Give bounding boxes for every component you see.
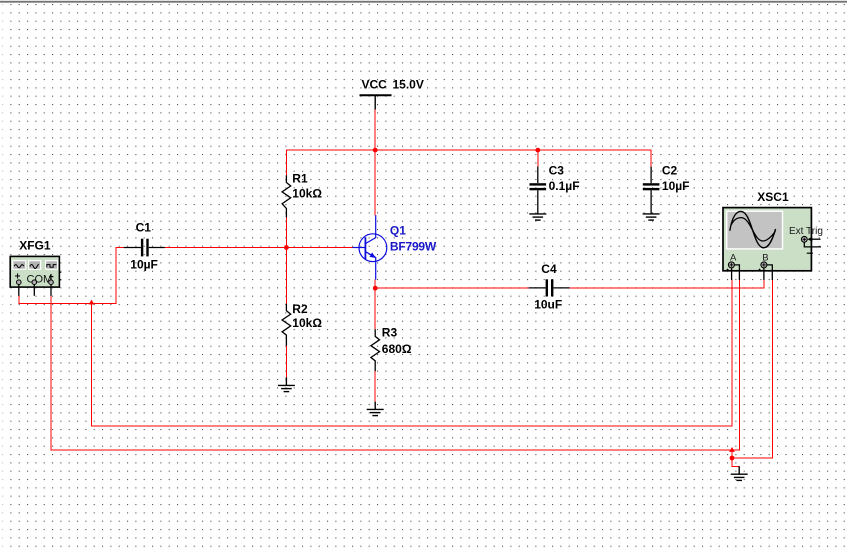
wire C2 tap — [650, 150, 652, 167]
wire collector — [374, 150, 376, 215]
svg-text:10µF: 10µF — [130, 257, 158, 271]
svg-text:COM: COM — [27, 274, 53, 286]
svg-text:R2: R2 — [292, 302, 308, 316]
svg-text:BF799W: BF799W — [390, 239, 437, 253]
ground (bottom right) — [731, 466, 748, 480]
ground (below R2) — [278, 377, 295, 391]
wire scope B minus down — [732, 280, 772, 458]
square icon — [47, 265, 57, 268]
capacitor C4 — [529, 262, 570, 312]
resistor R3 — [371, 329, 380, 371]
wire R2 to ground — [285, 346, 287, 378]
svg-text:Ext Trig: Ext Trig — [789, 226, 823, 237]
wire R1 bottom to base node — [285, 217, 287, 247]
pin A plus — [731, 268, 733, 280]
svg-text:R1: R1 — [292, 171, 308, 185]
svg-text:10kΩ: 10kΩ — [292, 186, 322, 200]
triangle icon — [30, 264, 39, 269]
node ground bus junction — [730, 456, 735, 461]
wire ground node jog — [732, 450, 739, 466]
wire R1 top — [285, 150, 287, 175]
node base junction — [284, 245, 289, 250]
svg-text:R3: R3 — [382, 326, 398, 340]
wire C4 to scope B — [569, 280, 764, 288]
svg-text:10kΩ: 10kΩ — [292, 316, 322, 330]
capacitor C1 — [124, 221, 165, 272]
node emitter output junction — [373, 286, 378, 291]
pin B plus — [763, 268, 765, 280]
wire base node to R2 — [285, 248, 287, 304]
svg-text:0.1µF: 0.1µF — [549, 179, 580, 193]
svg-text:10µF: 10µF — [662, 179, 690, 193]
wire output node to R3 — [374, 288, 376, 329]
svg-text:680Ω: 680Ω — [382, 342, 412, 356]
wire top rail — [286, 149, 651, 151]
wire base row — [165, 247, 353, 249]
ext trig terminal — [801, 236, 807, 242]
edge marks — [725, 268, 729, 271]
scope trace big — [730, 211, 776, 247]
wire XFG1 plus branch to scope A — [92, 280, 733, 426]
svg-text:XFG1: XFG1 — [19, 238, 51, 252]
svg-text:C3: C3 — [549, 163, 565, 177]
sine icon — [14, 265, 24, 268]
svg-text:XSC1: XSC1 — [757, 190, 789, 204]
ground (below C3) — [529, 214, 546, 220]
scope trace small — [731, 218, 775, 241]
capacitor C2 — [643, 163, 690, 214]
ground (below C2) — [643, 214, 660, 220]
svg-text:C1: C1 — [136, 221, 152, 235]
svg-text:C2: C2 — [662, 163, 678, 177]
wire VCC to top rail — [374, 110, 376, 151]
ground (below R3) — [367, 402, 384, 416]
transistor Q1 — [353, 215, 387, 280]
instrument XFG1 — [10, 238, 61, 295]
node C3 tap junction — [535, 148, 540, 153]
resistor R1 — [282, 175, 291, 217]
wire XFG1 minus to ground rail — [51, 296, 732, 450]
pin A minus hook — [734, 265, 739, 280]
terminals — [17, 280, 22, 285]
node junction dots — [89, 148, 735, 461]
wire C3 tap — [537, 150, 539, 167]
wire R3 to ground — [374, 371, 376, 402]
power VCC — [360, 78, 424, 110]
wire C1 left to XFG1 plus — [19, 248, 124, 304]
instrument XSC1 — [723, 190, 823, 280]
wire scope A minus down — [732, 280, 739, 450]
wire output node to C4 — [375, 287, 529, 289]
node VCC rail junction — [373, 148, 378, 153]
svg-text:C4: C4 — [541, 262, 557, 276]
terminal B — [761, 262, 767, 268]
capacitor C3 — [530, 163, 580, 214]
svg-text:VCC: VCC — [362, 78, 388, 92]
resistor R2 — [282, 304, 291, 346]
node arrow at ground bus — [729, 447, 735, 452]
terminal A — [728, 262, 734, 268]
pin B minus hook — [767, 265, 772, 280]
svg-text:10uF: 10uF — [534, 298, 562, 312]
svg-text:15.0V: 15.0V — [393, 78, 424, 92]
svg-text:Q1: Q1 — [390, 224, 406, 238]
wire emitter to output node — [374, 280, 376, 288]
node arrow at XFG1 branch — [89, 300, 95, 305]
